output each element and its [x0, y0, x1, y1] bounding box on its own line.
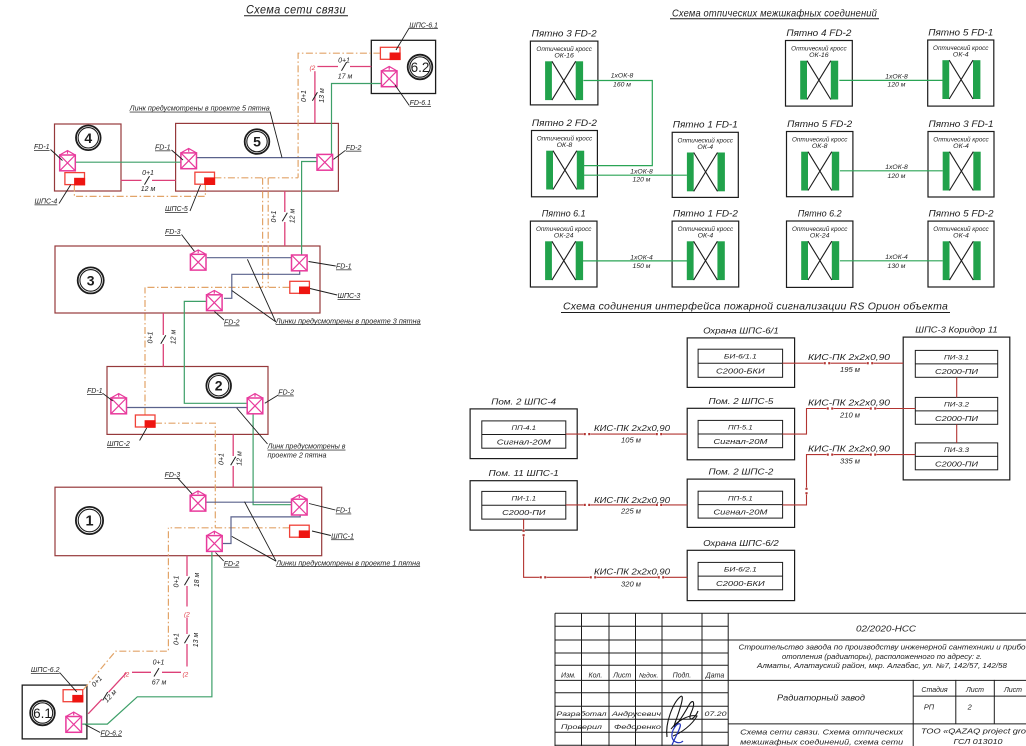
svg-text:№док.: №док. [639, 671, 659, 679]
svg-text:ПИ-3.3: ПИ-3.3 [944, 447, 970, 454]
svg-text:Проверил: Проверил [561, 724, 602, 731]
signature scribble [667, 696, 698, 737]
svg-text:КИС-ПК 2х2х0,90: КИС-ПК 2х2х0,90 [594, 567, 671, 576]
svg-text:0+1: 0+1 [301, 90, 308, 102]
room 6.1 outline [22, 685, 87, 739]
svg-text:0+1: 0+1 [148, 331, 155, 343]
wire: magenta riser room6.2 link down to room5 [314, 71, 316, 123]
svg-text:ПИ-3.1: ПИ-3.1 [944, 355, 969, 362]
cabinet ШПС-3 [290, 281, 310, 294]
interface line БИ-6/1.1 to ПИ-3.1, КИС-ПК 195 м [783, 362, 904, 364]
svg-text:12 м: 12 м [141, 186, 156, 193]
svg-text:ОК-4: ОК-4 [953, 143, 969, 150]
room number 3 [78, 267, 104, 293]
svg-text:КИС-ПК 2х2х0,90: КИС-ПК 2х2х0,90 [594, 496, 671, 505]
svg-text:С2000-БКИ: С2000-БКИ [716, 366, 765, 375]
cabinet ШПС-6.1 [380, 47, 400, 60]
svg-text:С2000-ПИ: С2000-ПИ [935, 460, 979, 469]
svg-text:Линк предусмотрены в проекте 5: Линк предусмотрены в проекте 5 пятна [129, 105, 270, 113]
svg-text:Кол.: Кол. [589, 672, 603, 679]
wire: optical green FD-2(room2) to FD-1(room1) [253, 414, 291, 505]
svg-text:13 м: 13 м [319, 88, 326, 103]
wire: magenta ШПС link room4-room5 [121, 179, 142, 181]
device box ШПС-3 Коридор 11 [903, 325, 1010, 480]
svg-text:120 м: 120 м [888, 173, 906, 180]
svg-text:130 м: 130 м [888, 263, 906, 270]
svg-text:Пятно 3 FD-2: Пятно 3 FD-2 [532, 29, 597, 39]
room number 2 [206, 373, 231, 398]
svg-text:Андрусевич: Андрусевич [611, 710, 662, 718]
wire: orange ШПС-2 to ШПС-1 [155, 423, 215, 528]
svg-text:ШПС-4: ШПС-4 [35, 199, 58, 206]
device box Пом. 2 ШПС-2 [687, 467, 794, 528]
svg-text:Дата: Дата [705, 672, 725, 679]
optical cross box Пятно 6.2 [787, 208, 853, 287]
svg-text:12 м: 12 м [237, 451, 244, 466]
interface line ПП-4.1 to ПП-5.1, КИС-ПК 105 м [566, 433, 687, 435]
svg-text:(2: (2 [184, 612, 190, 619]
device box Пом. 2 ШПС-5 [687, 396, 794, 460]
svg-text:Пятно 1 FD-1: Пятно 1 FD-1 [673, 120, 738, 130]
svg-text:ОК-8: ОК-8 [557, 142, 573, 149]
wire: orange drop to room3 at x=268.2 [267, 178, 269, 288]
svg-text:проекте 2 пятна: проекте 2 пятна [268, 452, 327, 459]
svg-text:Пятно 6.1: Пятно 6.1 [542, 209, 586, 219]
distribution box FD-3 (room 3) [190, 250, 206, 270]
wire: optical green FD-6.1(room6.2) to FD-2(room5) [332, 84, 382, 155]
svg-text:КИС-ПК 2х2х0,90: КИС-ПК 2х2х0,90 [808, 399, 891, 408]
svg-text:С2000-ПИ: С2000-ПИ [935, 414, 979, 423]
wire: optical green FD-2(room5) to FD-1(room3) [302, 162, 317, 256]
svg-text:160 м: 160 м [613, 81, 631, 88]
cabinet ШПС-2 [135, 415, 155, 428]
optical cross box Пятно 6.1 [530, 209, 597, 288]
svg-text:ОК-4: ОК-4 [953, 52, 969, 59]
svg-text:Пятно 6.2: Пятно 6.2 [798, 208, 842, 218]
svg-text:ПП-4.1: ПП-4.1 [512, 425, 537, 432]
svg-text:5: 5 [253, 134, 261, 150]
red connector ПИ-3.1 to ПИ-3.2 [956, 377, 958, 397]
svg-text:0+1: 0+1 [142, 170, 154, 177]
svg-text:Строительство завода по произв: Строительство завода по производству инж… [739, 644, 1026, 652]
wire: magenta room1 down segment 18 м [186, 556, 188, 576]
svg-text:17 м: 17 м [338, 74, 353, 81]
svg-text:Схема сети связи. Схема отпиче: Схема сети связи. Схема отпических [740, 728, 904, 737]
svg-text:ПП-5.1: ПП-5.1 [728, 495, 753, 502]
distribution box FD-2 (room 2) [247, 394, 263, 414]
svg-text:ОК-8: ОК-8 [812, 143, 828, 150]
svg-text:отопления (радиаторы), располо: отопления (радиаторы), расположенного по… [782, 653, 982, 661]
svg-text:ШПС-3 Коридор 11: ШПС-3 Коридор 11 [915, 325, 997, 335]
svg-text:FD-1: FD-1 [155, 145, 171, 152]
optical cross box Пятно 3 FD-2 [530, 29, 598, 105]
svg-text:FD-3: FD-3 [165, 229, 181, 236]
optical cross box Пятно 5 FD-2 [787, 119, 853, 197]
wire: magenta room1 down segment 13 м [186, 618, 188, 635]
wire: magenta link room5-room3 [284, 191, 286, 212]
svg-text:Пятно 3 FD-1: Пятно 3 FD-1 [929, 119, 994, 129]
svg-text:120 м: 120 м [633, 177, 651, 184]
room number 1 [76, 507, 103, 534]
svg-text:Линки предусмотрены в проекте: Линки предусмотрены в проекте 1 пятна [275, 559, 420, 567]
wire: optical green FD-2(room1) to FD-6.2(room6.1) [82, 552, 212, 725]
distribution box FD-1 (room 3) [292, 255, 308, 271]
title block frame [555, 613, 1026, 746]
svg-text:1: 1 [85, 514, 93, 530]
svg-text:12 м: 12 м [289, 209, 296, 224]
svg-text:18 м: 18 м [194, 573, 201, 588]
wire: optical green FD-1(room4) to FD-1(room5) [75, 161, 181, 163]
wire: magenta horizontal segment 67 м [162, 671, 181, 673]
wire: orange room1 horizontal to ШПС-1 [168, 527, 289, 529]
distribution box FD-1 (room 4) [60, 151, 76, 171]
svg-text:Пятно 5 FD-1: Пятно 5 FD-1 [928, 27, 993, 37]
wire: navy room3 FD-2 jog to FD-1 [224, 271, 300, 298]
svg-text:ГСЛ 013010: ГСЛ 013010 [954, 737, 1003, 746]
svg-text:1хОК-8: 1хОК-8 [630, 168, 653, 175]
distribution box FD-2 (room 3) [207, 290, 223, 310]
distribution box FD-2 (room 5) [317, 154, 333, 170]
room 5 outline [176, 123, 339, 191]
svg-text:Линк предусмотрены в: Линк предусмотрены в [266, 443, 345, 451]
svg-text:225 м: 225 м [620, 507, 642, 516]
svg-text:ПИ-1.1: ПИ-1.1 [512, 496, 537, 503]
svg-text:120 м: 120 м [888, 82, 906, 89]
svg-text:КИС-ПК 2х2х0,90: КИС-ПК 2х2х0,90 [808, 353, 891, 362]
optical cross box Пятно 4 FD-2 [786, 28, 853, 106]
svg-text:ОК-24: ОК-24 [554, 233, 574, 240]
optical cross box Пятно 1 FD-2 [672, 209, 739, 288]
room 3 outline [55, 246, 320, 313]
distribution box FD-1 (room 2) [111, 394, 127, 414]
svg-text:Изм.: Изм. [561, 672, 576, 679]
svg-text:ОК-24: ОК-24 [810, 233, 830, 240]
svg-text:ПИ-3.2: ПИ-3.2 [944, 402, 970, 409]
svg-text:БИ-6/1.1: БИ-6/1.1 [724, 354, 757, 361]
optical cross box Пятно 5 FD-1 [928, 27, 994, 106]
svg-text:Пятно 5 FD-2: Пятно 5 FD-2 [929, 209, 994, 219]
wire: magenta link to room6.2 [317, 66, 338, 68]
svg-text:150 м: 150 м [633, 263, 651, 270]
svg-text:ПП-5.1: ПП-5.1 [728, 425, 753, 432]
signature scribble blue [672, 724, 683, 745]
red connector ПИ-3.2 to ПИ-3.3 [956, 424, 958, 443]
svg-text:0+1: 0+1 [271, 210, 278, 222]
svg-text:Охрана ШПС-6/1: Охрана ШПС-6/1 [703, 325, 779, 335]
svg-text:Разработал: Разработал [557, 710, 607, 718]
room 1 outline [55, 487, 322, 556]
svg-text:(2: (2 [310, 65, 316, 72]
svg-text:FD-1: FD-1 [336, 264, 352, 271]
room 4 outline [55, 124, 122, 191]
svg-text:FD-2: FD-2 [278, 390, 294, 397]
cabinet ШПС-1 [290, 525, 310, 538]
optical link Пятно 5 FD-2 to Пятно 3 FD-1, 1хОК-8 120 м [840, 170, 943, 172]
svg-text:0+1: 0+1 [173, 575, 180, 587]
svg-text:Лист: Лист [1003, 687, 1022, 694]
svg-text:Пятно 4 FD-2: Пятно 4 FD-2 [786, 28, 851, 38]
wire: orange drop to room3 at x=262.6 [262, 178, 264, 288]
svg-text:ШПС-2: ШПС-2 [107, 441, 130, 448]
svg-text:FD-6.1: FD-6.1 [410, 100, 432, 107]
optical cross box Пятно 5 FD-2 (right) [928, 209, 994, 288]
svg-text:105 м: 105 м [621, 436, 642, 445]
svg-text:Пом. 2 ШПС-5: Пом. 2 ШПС-5 [709, 396, 774, 406]
svg-text:1хОК-4: 1хОК-4 [630, 254, 653, 261]
svg-text:Алматы, Алатауский район, мкр.: Алматы, Алатауский район, мкр. Алгабас, … [756, 662, 1007, 670]
svg-text:4: 4 [84, 130, 92, 146]
svg-text:Схема сети связи: Схема сети связи [246, 4, 346, 17]
optical link Пятно 3 FD-2 to Пятно 2 FD-2, 1хОК-8 160 м [583, 81, 652, 166]
svg-text:Пом. 2 ШПС-2: Пом. 2 ШПС-2 [709, 467, 774, 477]
wire: orange drop room3 to ШПС-2 [144, 287, 146, 415]
svg-text:ОК-4: ОК-4 [697, 144, 713, 151]
distribution box FD-1 (room 1) [292, 495, 308, 515]
device box Пом. 2 ШПС-4 [470, 396, 577, 458]
distribution box FD-2 (room 1) [207, 531, 223, 551]
svg-text:ШПС-1: ШПС-1 [331, 533, 354, 540]
optical cross box Пятно 2 FD-2 [532, 118, 598, 197]
svg-text:Линки предусмотрены в проекте: Линки предусмотрены в проекте 3 пятна [275, 317, 421, 325]
svg-text:Пом. 11 ШПС-1: Пом. 11 ШПС-1 [489, 468, 559, 478]
wire: magenta link room3-room2 [162, 313, 164, 335]
svg-text:Лист: Лист [612, 672, 631, 679]
svg-text:2: 2 [967, 703, 972, 712]
distribution box FD-1 (room 5) [181, 149, 197, 169]
svg-text:6.1: 6.1 [33, 706, 52, 721]
interface line ПП-5.1 to ПИ-3.2, КИС-ПК 210 м [783, 407, 916, 434]
svg-text:ШПС-6.1: ШПС-6.1 [409, 22, 438, 29]
svg-text:Схема отпических межшкафных со: Схема отпических межшкафных соединений [672, 8, 877, 20]
wire: orange riser to ШПС-6.1 [298, 53, 380, 178]
optical link Пятно 6.2 to Пятно 5 FD-2, 1хОК-4 130 м [840, 260, 943, 262]
svg-text:0+1: 0+1 [218, 453, 225, 465]
svg-text:07.20: 07.20 [705, 711, 727, 718]
svg-text:1хОК-8: 1хОК-8 [885, 164, 908, 171]
wire: navy trunk room3 FD-3 to FD-1 [207, 257, 291, 259]
svg-text:Схема содинения интерфейса пож: Схема содинения интерфейса пожарной сигн… [563, 301, 948, 313]
svg-text:ШПС-3: ШПС-3 [338, 293, 361, 300]
svg-text:335 м: 335 м [840, 457, 861, 466]
room 6.2 outline [371, 40, 435, 93]
svg-text:FD-6.2: FD-6.2 [101, 730, 123, 737]
svg-text:Подп.: Подп. [673, 671, 692, 679]
svg-text:КИС-ПК 2х2х0,90: КИС-ПК 2х2х0,90 [808, 445, 891, 454]
svg-text:12 м: 12 м [171, 330, 178, 345]
svg-text:Охрана ШПС-6/2: Охрана ШПС-6/2 [703, 538, 779, 548]
device box Охрана ШПС-6/2 [687, 538, 794, 601]
optical cross box Пятно 1 FD-1 [672, 120, 738, 198]
svg-text:1хОК-8: 1хОК-8 [885, 73, 908, 80]
device box Пом. 11 ШПС-1 [470, 468, 577, 530]
svg-text:ОК-4: ОК-4 [953, 233, 969, 240]
svg-text:Радиаторный завод: Радиаторный завод [777, 694, 866, 703]
svg-text:6.2: 6.2 [411, 60, 430, 75]
svg-text:02/2020-НСС: 02/2020-НСС [856, 625, 916, 634]
svg-text:3: 3 [87, 272, 95, 288]
room number 6.2 [408, 55, 433, 80]
cabinet ШПС-5 [195, 172, 215, 185]
svg-text:ШПС-5: ШПС-5 [165, 206, 188, 213]
svg-text:Пом. 2 ШПС-4: Пом. 2 ШПС-4 [491, 396, 556, 406]
cabinet ШПС-4 [65, 173, 85, 186]
optical link Пятно 2 FD-2 to Пятно 1 FD-1, 1хОК-8 120 м [583, 174, 687, 176]
svg-text:13 м: 13 м [193, 633, 200, 648]
svg-text:0+1: 0+1 [338, 58, 350, 65]
wire: magenta diagonal to room 6.1 [109, 673, 127, 692]
distribution box FD-6.1 (room 6.2) [381, 67, 397, 87]
svg-text:ОК-16: ОК-16 [809, 52, 829, 59]
svg-text:Пятно 1 FD-2: Пятно 1 FD-2 [673, 209, 738, 219]
svg-text:320 м: 320 м [621, 580, 642, 589]
svg-text:Пятно 5 FD-2: Пятно 5 FD-2 [787, 119, 852, 129]
wire: navy trunk room2 FD-1 to FD-2 [127, 407, 247, 409]
svg-text:Стадия: Стадия [921, 686, 947, 694]
room number 6.1 [30, 701, 55, 726]
svg-text:210 м: 210 м [839, 411, 861, 420]
svg-text:Сигнал-20М: Сигнал-20М [713, 437, 768, 446]
svg-text:1хОК-8: 1хОК-8 [611, 73, 634, 80]
svg-text:С2000-БКИ: С2000-БКИ [716, 579, 765, 588]
svg-text:FD-1: FD-1 [336, 508, 352, 515]
svg-text:1хОК-4: 1хОК-4 [885, 254, 908, 261]
optical cross box Пятно 3 FD-1 [928, 119, 994, 197]
svg-text:Федоренко: Федоренко [614, 723, 661, 731]
svg-text:С2000-ПИ: С2000-ПИ [502, 508, 546, 517]
wire: magenta link room2-room1 [232, 434, 234, 456]
optical link Пятно 4 FD-2 to Пятно 5 FD-1, 1хОК-8 120 м [839, 79, 942, 81]
room 2 outline [107, 367, 268, 435]
wire: orange ШПС-4 to ШПС-5 [74, 184, 205, 196]
wire: navy room1 FD-2 jog to FD-1 [223, 515, 300, 544]
svg-text:195 м: 195 м [840, 365, 861, 374]
interface line ПИ-1.1 down to БИ-6/2.1, КИС-ПК 320 м [522, 519, 687, 578]
wire: orange room3 horizontal to ШПС-3 [145, 286, 290, 288]
wire: navy trunk room1 FD-3 to FD-1 [206, 501, 291, 503]
svg-text:ОК-16: ОК-16 [554, 53, 574, 60]
device box Охрана ШПС-6/1 [687, 325, 794, 387]
interface line ПИ-1.1 to ПП-5.1(ШПС-2), КИС-ПК 225 м [566, 504, 687, 506]
svg-text:Пятно 2 FD-2: Пятно 2 FD-2 [532, 118, 597, 128]
distribution box FD-3 (room 1) [190, 491, 206, 511]
svg-text:FD-1: FD-1 [87, 388, 103, 395]
svg-text:РП: РП [924, 703, 935, 712]
svg-text:FD-1: FD-1 [34, 144, 50, 151]
wire: orange ШПС-5 feeder east [214, 177, 298, 179]
svg-text:67 м: 67 м [152, 680, 167, 687]
wire: optical green FD-2(room3) to FD-2(room2) [184, 301, 247, 403]
svg-text:FD-2: FD-2 [346, 145, 362, 152]
room number 5 [245, 129, 270, 154]
room number 4 [76, 126, 101, 151]
svg-text:Сигнал-20М: Сигнал-20М [713, 507, 768, 516]
svg-text:ТОО «QAZAQ project gro: ТОО «QAZAQ project gro [921, 727, 1026, 736]
svg-text:(2: (2 [183, 672, 189, 679]
svg-text:ШПС-6.2: ШПС-6.2 [31, 667, 60, 674]
wire: navy trunk room5 FD-1 to FD-2 [196, 157, 317, 159]
interface line ПП-5.1(ШПС-2) to ПИ-3.3, КИС-ПК 335 м [783, 453, 916, 505]
svg-text:2: 2 [215, 378, 223, 394]
svg-text:FD-2: FD-2 [224, 561, 240, 568]
wire: orange drop to ШПС-6.2 [83, 528, 168, 690]
cabinet ШПС-6.2 [63, 690, 83, 703]
svg-text:0+1: 0+1 [153, 660, 165, 667]
svg-text:0+1: 0+1 [173, 633, 180, 645]
svg-text:FD-2: FD-2 [224, 320, 240, 327]
distribution box FD-6.2 (room 6.1) [66, 712, 82, 732]
svg-text:Лист: Лист [965, 687, 984, 694]
svg-text:КИС-ПК 2х2х0,90: КИС-ПК 2х2х0,90 [594, 424, 671, 433]
svg-text:межшкафных соединений, схема с: межшкафных соединений, схема сети [740, 737, 903, 746]
svg-text:Сигнал-20М: Сигнал-20М [497, 437, 552, 446]
svg-text:С2000-ПИ: С2000-ПИ [935, 367, 979, 376]
svg-text:БИ-6/2.1: БИ-6/2.1 [724, 567, 757, 574]
svg-text:ОК-4: ОК-4 [698, 233, 714, 240]
optical link Пятно 6.1 to Пятно 1 FD-2, 1хОК-4 150 м [583, 260, 687, 262]
